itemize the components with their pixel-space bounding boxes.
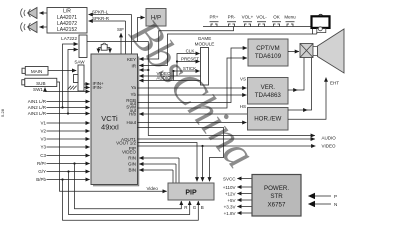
wire SAW to IFIN+ xyxy=(84,83,90,85)
input Y3 xyxy=(40,145,89,150)
input V3 xyxy=(40,137,89,142)
wire Ya to VER xyxy=(138,87,247,89)
input V1 xyxy=(40,121,89,126)
switch SW1 xyxy=(33,87,45,92)
wire LA7222 in A xyxy=(63,44,78,108)
svg-text:SPKR-L: SPKR-L xyxy=(92,10,109,15)
wire LA7222 in B xyxy=(68,50,78,114)
svg-text:V1: V1 xyxy=(40,121,46,126)
power rail +1.8V xyxy=(224,211,252,216)
svg-text:49xxI: 49xxI xyxy=(101,123,119,132)
wire G/Y to PIP G xyxy=(67,170,189,214)
TV set icon xyxy=(312,14,330,32)
node AIN2 junction xyxy=(61,106,63,108)
wire SAW to IFIN- xyxy=(84,87,90,89)
svg-text:LA7222: LA7222 xyxy=(61,36,77,41)
speaker SP2 xyxy=(21,22,37,33)
svg-text:G/Y: G/Y xyxy=(38,169,46,174)
AV switch U2 LA7222 xyxy=(61,35,87,58)
wire BIN xyxy=(139,170,173,183)
svg-text:OK: OK xyxy=(273,15,280,20)
svg-text:Y3: Y3 xyxy=(40,145,46,150)
audio amp U_LR LA42071/2/152 xyxy=(47,8,87,34)
wire CPT to yoke xyxy=(288,51,299,53)
PIP RGB pin labels xyxy=(184,205,204,210)
svg-text:GAME: GAME xyxy=(198,36,212,41)
input G/Y xyxy=(38,169,89,174)
svg-text:MAIN: MAIN xyxy=(31,69,42,74)
wire CLK xyxy=(177,49,200,76)
svg-text:+110V: +110V xyxy=(223,185,236,190)
svg-text:V2: V2 xyxy=(40,129,46,134)
input AIN2 L/R xyxy=(28,105,90,110)
wire Yb to VER xyxy=(138,94,247,96)
wire KEY to buttons xyxy=(139,27,233,60)
svg-text:R/Pr: R/Pr xyxy=(37,161,47,166)
headphone block H/P xyxy=(146,9,166,27)
power supply block POWER STR X6757 xyxy=(252,175,301,217)
svg-text:+5V: +5V xyxy=(227,198,235,203)
wire PRESET xyxy=(176,57,200,63)
wire MAIN to SAW xyxy=(48,70,76,72)
power rail +3.3V xyxy=(224,204,252,209)
svg-text:VOL-: VOL- xyxy=(256,15,267,20)
svg-text:SUB: SUB xyxy=(36,81,45,86)
wire game AUDIO to chip xyxy=(139,76,200,81)
wire SVM out to CPT xyxy=(138,58,247,108)
crystal X1 xyxy=(99,43,111,53)
main IC U1 VCTi 49xxI xyxy=(91,54,139,186)
svg-text:AIN2 L/R: AIN2 L/R xyxy=(28,105,47,110)
wire AC N xyxy=(309,202,338,207)
power rail +5V xyxy=(227,198,252,203)
svg-text:TDA6109: TDA6109 xyxy=(255,53,282,60)
svg-text:SAW: SAW xyxy=(74,60,85,65)
svg-text:B/Pb: B/Pb xyxy=(36,177,46,182)
svg-text:5-28: 5-28 xyxy=(0,108,5,117)
svg-text:P: P xyxy=(334,194,337,199)
wire to H/P box xyxy=(138,18,145,42)
svg-text:SVCC: SVCC xyxy=(223,176,236,181)
button Menu xyxy=(286,22,295,27)
wire SPKR-R xyxy=(89,16,126,54)
svg-text:TDA4863: TDA4863 xyxy=(255,92,282,99)
svg-text:G: G xyxy=(193,205,197,210)
svg-text:Yb: Yb xyxy=(130,92,136,97)
svg-text:LA42072: LA42072 xyxy=(57,21,77,27)
wire LA7222 out to audio out xyxy=(87,42,315,136)
svg-text:IR: IR xyxy=(132,63,137,68)
svg-text:X6757: X6757 xyxy=(268,201,286,208)
svg-text:+3.3V: +3.3V xyxy=(224,204,236,209)
input C3 xyxy=(40,153,89,158)
PIP block xyxy=(168,183,214,200)
wire VER to yoke xyxy=(288,89,297,91)
svg-text:SPKR-R: SPKR-R xyxy=(92,16,110,21)
svg-text:N: N xyxy=(334,202,337,207)
svg-text:Hout: Hout xyxy=(126,120,136,125)
input AIN1 L/R xyxy=(28,99,90,104)
input B/Pb xyxy=(36,177,89,182)
svg-text:HS: HS xyxy=(240,104,246,109)
wire Hout to HOR xyxy=(138,122,247,124)
svg-text:VCTi: VCTi xyxy=(101,114,118,123)
wire EHT xyxy=(288,78,339,120)
watermark xyxy=(120,10,265,177)
ground hatch xyxy=(68,86,77,90)
wire branch to PIP xyxy=(202,146,204,181)
SAW filter xyxy=(74,60,86,91)
input V2 xyxy=(40,129,89,134)
wire to SP2 xyxy=(40,26,48,28)
CRT tube xyxy=(313,29,344,73)
svg-text:C3: C3 xyxy=(40,153,46,158)
svg-text:VIDEO: VIDEO xyxy=(122,150,137,155)
wire IR from TV sensor xyxy=(139,33,316,66)
svg-text:PR+: PR+ xyxy=(210,15,219,20)
svg-text:H/b: H/b xyxy=(129,112,137,117)
svg-text:EHT: EHT xyxy=(330,81,339,86)
svg-text:VIDEO: VIDEO xyxy=(322,144,337,149)
svg-text:LA42152: LA42152 xyxy=(57,27,77,33)
svg-text:Ya: Ya xyxy=(131,85,137,90)
wire stub into chip xyxy=(139,69,148,71)
wire buttons bus xyxy=(203,27,313,35)
wire SPKR-L xyxy=(89,10,132,54)
button PR- xyxy=(227,22,236,27)
tuner MAIN xyxy=(22,67,48,76)
node pip video branch xyxy=(201,145,203,147)
svg-text:SIF: SIF xyxy=(117,27,124,32)
svg-text:+1.8V: +1.8V xyxy=(224,211,236,216)
svg-text:VOL+: VOL+ xyxy=(242,15,254,20)
wire RGB out to CPT xyxy=(138,48,247,103)
wire AC P xyxy=(309,194,338,199)
svg-text:V3: V3 xyxy=(40,137,46,142)
button VOL+ xyxy=(243,22,252,27)
node AIN3 junction xyxy=(67,112,69,114)
svg-text:BbsChina: BbsChina xyxy=(120,10,265,177)
svg-text:SW1: SW1 xyxy=(33,87,43,92)
power rail +110V xyxy=(223,185,252,190)
svg-text:GIN: GIN xyxy=(128,161,136,166)
svg-text:IFIN-: IFIN- xyxy=(93,85,103,90)
wire SW1 to chip xyxy=(45,91,90,93)
node LA7222 stub xyxy=(147,69,149,71)
svg-text:VER.: VER. xyxy=(261,84,276,91)
wire VOUT to PIP xyxy=(138,143,198,182)
svg-text:R: R xyxy=(184,205,188,210)
wire RIN xyxy=(139,158,179,183)
game module connector xyxy=(195,36,215,85)
wire PIP VIDEO out xyxy=(138,145,316,147)
svg-text:+12V: +12V xyxy=(225,191,236,196)
svg-text:AIN3 L/R: AIN3 L/R xyxy=(28,111,47,116)
input R/Pr xyxy=(37,161,90,166)
svg-text:Video: Video xyxy=(147,186,159,191)
svg-text:VS: VS xyxy=(240,76,246,81)
svg-text:AUDIO: AUDIO xyxy=(322,135,337,140)
svg-text:PR-: PR- xyxy=(228,15,236,20)
wire AOUT1 audio out xyxy=(138,138,315,140)
svg-text:LA42071: LA42071 xyxy=(57,15,77,21)
svg-text:STR: STR xyxy=(270,193,283,200)
wire R/Pr to PIP R xyxy=(73,162,181,208)
CRT drive block CPT/VM TDA6109 xyxy=(248,39,288,66)
svg-text:CPT/VM: CPT/VM xyxy=(256,45,279,52)
speaker SP1 xyxy=(21,8,37,19)
wire B/Pb to PIP B xyxy=(61,178,198,220)
svg-text:VOUT 1/2: VOUT 1/2 xyxy=(116,141,136,146)
input AIN3 L/R xyxy=(28,111,90,116)
svg-text:B: B xyxy=(201,205,204,210)
button PR+ xyxy=(210,22,219,27)
horizontal block HOR./EW xyxy=(248,108,289,131)
button OK xyxy=(272,22,281,27)
wire GIN xyxy=(139,164,176,183)
svg-text:Menu: Menu xyxy=(284,15,296,20)
vertical block VER TDA4863 xyxy=(248,78,289,105)
wire to SP1 xyxy=(40,12,48,14)
wire game VIDEO to chip xyxy=(139,71,200,76)
svg-text:POWER.: POWER. xyxy=(264,185,289,192)
wire H/b feedback xyxy=(139,113,250,115)
svg-text:AIN1 L/R: AIN1 L/R xyxy=(28,99,47,104)
wire SUB to PIP video xyxy=(57,82,167,191)
power rail +12V xyxy=(225,191,252,196)
tuner SUB xyxy=(22,78,57,86)
power rail SVCC xyxy=(223,176,252,181)
svg-text:HOR./EW: HOR./EW xyxy=(254,116,281,123)
svg-text:PIP: PIP xyxy=(185,190,197,197)
svg-text:BIN: BIN xyxy=(128,167,136,172)
wire sync to PIP xyxy=(138,128,224,182)
button VOL- xyxy=(257,22,266,27)
control buttons row xyxy=(210,15,297,20)
deflection yoke xyxy=(300,44,313,58)
svg-text:RIN: RIN xyxy=(128,155,136,160)
svg-text:L/R: L/R xyxy=(63,9,71,15)
wire HOR to yoke xyxy=(288,109,307,111)
wire STICK xyxy=(172,66,199,80)
svg-text:MODULE: MODULE xyxy=(195,42,215,47)
wire SIF out xyxy=(117,27,124,54)
